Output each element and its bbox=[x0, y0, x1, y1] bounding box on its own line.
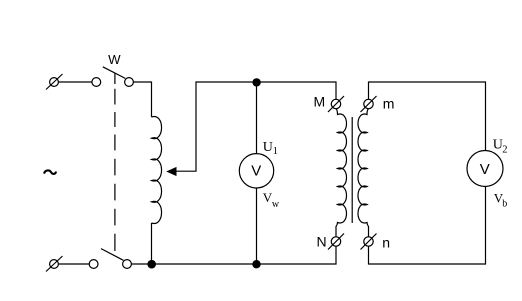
wire: voltmeter U1 to bottom rail bbox=[256, 188, 258, 264]
switch W pole-a left contact bbox=[92, 78, 101, 87]
svg-text:V: V bbox=[480, 161, 490, 178]
svg-text:W: W bbox=[108, 52, 121, 67]
wire: terminal X2 to switch contact bbox=[58, 263, 89, 265]
terminal m (circle with slash) bbox=[364, 99, 373, 108]
label M bbox=[314, 94, 326, 110]
label U2 bbox=[493, 138, 508, 156]
voltmeter U1 bbox=[239, 154, 273, 188]
junction dot at autotransformer bottom bbox=[147, 260, 156, 269]
svg-text:N: N bbox=[317, 233, 327, 249]
transformer primary winding bbox=[336, 109, 347, 237]
label N bbox=[317, 233, 327, 249]
label Vw bbox=[263, 190, 280, 210]
wire: switch to autotransformer top bbox=[133, 82, 151, 117]
junction dot bottom of voltmeter U1 branch bbox=[252, 260, 260, 268]
svg-text:n: n bbox=[382, 234, 390, 250]
junction dot top of voltmeter U1 branch bbox=[252, 78, 260, 86]
switch W pole-b right contact bbox=[123, 260, 132, 269]
terminal N (circle with slash) bbox=[331, 237, 340, 246]
voltmeter U2 bbox=[467, 151, 503, 187]
label Vb bbox=[494, 191, 508, 210]
autotransformer winding L1 bbox=[152, 117, 162, 224]
wire: terminal X1 to switch contact bbox=[58, 81, 92, 83]
AC source symbol ~ bbox=[44, 170, 56, 174]
svg-text:b: b bbox=[502, 199, 507, 210]
wire: voltmeter U2 to terminal n (secondary bottom rail) bbox=[369, 187, 486, 265]
label n bbox=[382, 234, 390, 250]
transformer secondary winding bbox=[358, 109, 369, 237]
switch W pole-b blade bbox=[101, 249, 123, 261]
terminal X1 (top-left, circle with slash) bbox=[50, 78, 59, 87]
switch W pole-b left contact bbox=[89, 260, 98, 269]
wire: top rail to voltmeter U1 bbox=[256, 82, 258, 154]
wire: terminal m to voltmeter U2 (secondary top rail) bbox=[369, 82, 486, 151]
label W bbox=[108, 52, 121, 67]
svg-text:V: V bbox=[251, 163, 261, 180]
svg-text:U: U bbox=[263, 140, 273, 155]
svg-text:m: m bbox=[383, 95, 395, 111]
switch W pole-a blade bbox=[103, 67, 126, 79]
svg-text:M: M bbox=[314, 94, 326, 110]
svg-text:2: 2 bbox=[502, 144, 507, 155]
transformer core bbox=[351, 117, 353, 223]
svg-text:1: 1 bbox=[273, 146, 278, 157]
bottom rail wire (switch to N leg) bbox=[131, 246, 336, 264]
label U1 bbox=[263, 140, 278, 157]
wire: autotransformer bottom to bottom rail bbox=[151, 223, 153, 264]
terminal X2 (bottom-left, circle with slash) bbox=[50, 260, 59, 269]
terminal n (circle with slash) bbox=[364, 237, 373, 246]
label m bbox=[383, 95, 395, 111]
svg-text:w: w bbox=[272, 199, 280, 210]
switch W pole-a right contact bbox=[125, 78, 134, 87]
terminal M (circle with slash) bbox=[331, 99, 340, 108]
dashed gang link of switch W bbox=[114, 73, 116, 251]
wiper tap arrow of autotransformer bbox=[172, 82, 336, 171]
